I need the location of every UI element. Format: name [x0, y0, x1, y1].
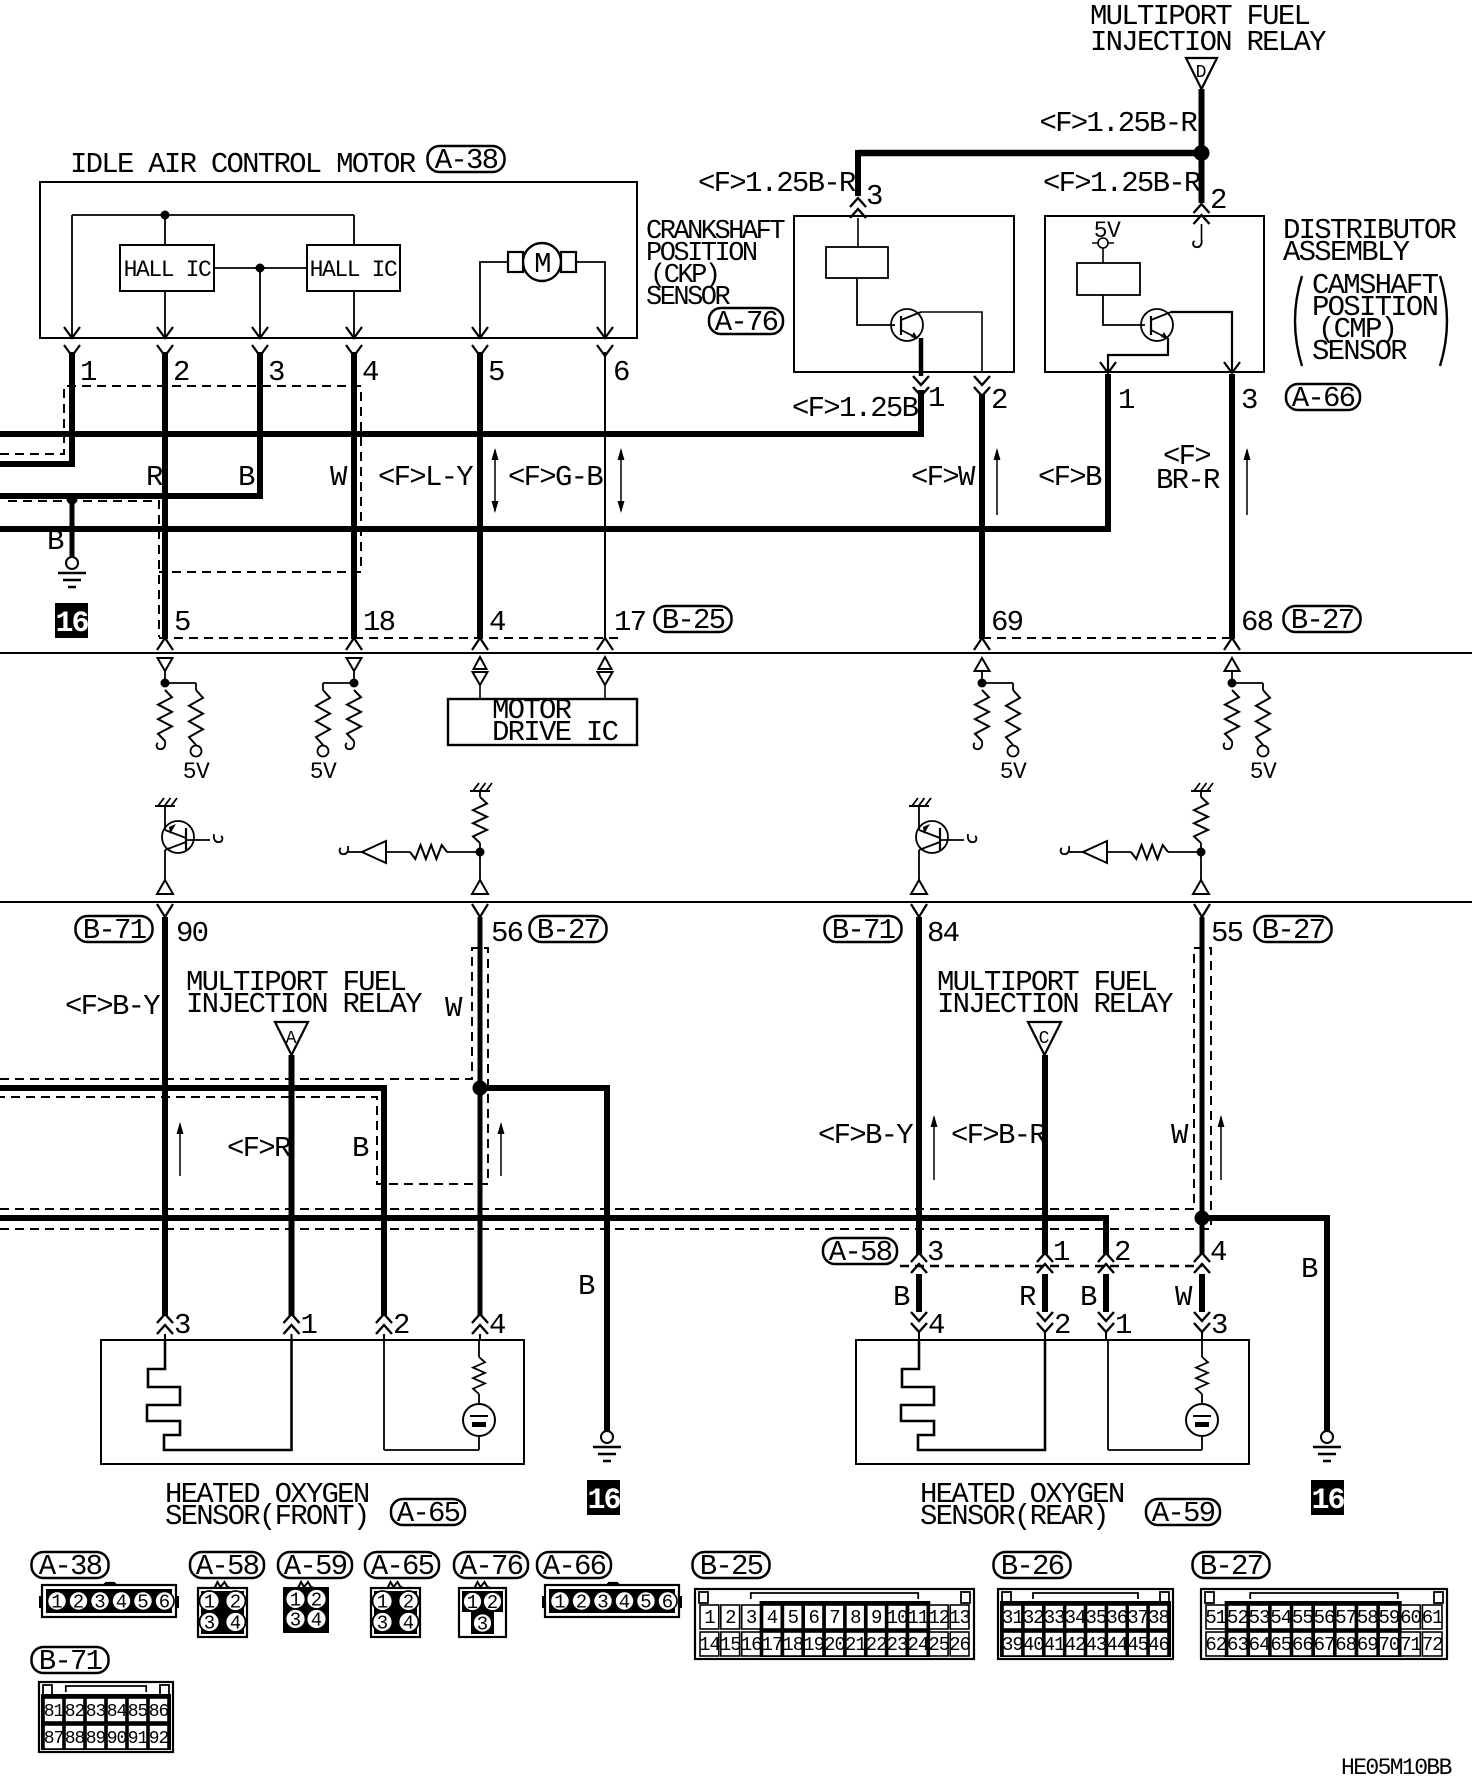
cell partition — [383, 1340, 385, 1450]
wire horizontal 1.25B-R — [858, 150, 1201, 157]
connector label B-27 — [530, 916, 607, 942]
svg-text:B-27: B-27 — [1200, 1550, 1263, 1583]
arrow up 68 — [1246, 450, 1248, 515]
svg-text:<F>B-Y: <F>B-Y — [818, 1119, 913, 1152]
svg-text:B-71: B-71 — [83, 914, 146, 947]
svg-text:3: 3 — [1211, 1309, 1227, 1342]
wire A-38 pin5 down to B-25 pin4 — [477, 352, 483, 639]
svg-text:22: 22 — [866, 1634, 887, 1656]
svg-text:53: 53 — [1249, 1607, 1270, 1629]
dashed harness outline lower — [8, 501, 159, 637]
svg-text:<F>B-Y: <F>B-Y — [65, 990, 160, 1023]
svg-text:B: B — [47, 525, 64, 558]
ecu output triangle — [1193, 880, 1209, 894]
svg-text:25: 25 — [928, 1634, 949, 1656]
relay terminal D triangle — [1186, 58, 1217, 89]
ecu terminal triangle — [158, 658, 173, 671]
svg-text:12: 12 — [928, 1607, 949, 1629]
svg-text:84: 84 — [107, 1702, 127, 1722]
svg-text:21: 21 — [845, 1634, 866, 1656]
resistor pull — [1225, 690, 1239, 741]
svg-text:55: 55 — [1292, 1607, 1313, 1629]
wire hall1-hall2 — [214, 267, 307, 269]
svg-text:26: 26 — [949, 1634, 970, 1656]
svg-text:BR-R: BR-R — [1156, 464, 1220, 497]
svg-text:B: B — [578, 1270, 595, 1303]
svg-text:6: 6 — [159, 1592, 170, 1614]
svg-text:DRIVE IC: DRIVE IC — [492, 716, 619, 749]
wire W to A-59 — [1199, 1274, 1205, 1312]
svg-text:SENSOR(REAR): SENSOR(REAR) — [920, 1500, 1108, 1533]
transistor Q cmp — [1141, 309, 1173, 341]
svg-text:<F>1.25B-R: <F>1.25B-R — [1039, 107, 1197, 140]
wire cmp collector to pin3 — [1171, 312, 1232, 372]
ckp pickup element — [826, 247, 888, 278]
connector label A-38 — [428, 146, 505, 172]
connector label A-59 gallery — [278, 1552, 352, 1578]
wire B to ground right-bottom — [1202, 1218, 1327, 1431]
wire CMP pin3 down to B-27 pin68 — [1229, 374, 1235, 639]
resistor pullup — [1194, 797, 1208, 843]
ecu motor drive terminal x480 — [474, 657, 487, 669]
svg-text:INJECTION RELAY: INJECTION RELAY — [186, 988, 422, 1021]
comparator buffer — [1083, 841, 1107, 863]
svg-text:5V: 5V — [1000, 759, 1027, 785]
svg-text:1: 1 — [1053, 1236, 1069, 1269]
wire CKP pin2 down to B-27 pin69 — [979, 394, 985, 639]
svg-text:1: 1 — [204, 1592, 215, 1614]
svg-text:B-27: B-27 — [1291, 604, 1354, 637]
svg-text:B: B — [1080, 1281, 1097, 1314]
ecu output triangle — [472, 880, 488, 894]
svg-text:18: 18 — [782, 1634, 803, 1656]
svg-text:39: 39 — [1002, 1634, 1023, 1656]
svg-text:A-76: A-76 — [460, 1550, 523, 1583]
resistor to 5V — [1256, 690, 1270, 745]
ground hatch — [470, 790, 490, 792]
svg-text:B: B — [1301, 1253, 1318, 1286]
svg-text:90: 90 — [107, 1729, 127, 1749]
svg-text:9: 9 — [871, 1607, 882, 1629]
svg-text:B-25: B-25 — [700, 1550, 763, 1583]
connector label B-25 gallery — [693, 1552, 770, 1578]
svg-text:6: 6 — [613, 356, 629, 389]
connector label B-27 right — [1255, 916, 1332, 942]
comparator buffer — [362, 841, 386, 863]
svg-text:<F>1.25B: <F>1.25B — [792, 392, 919, 425]
resistor to 5V — [316, 690, 330, 745]
svg-text:3: 3 — [268, 356, 284, 389]
connector label A-65 — [391, 1499, 465, 1525]
wire element to transistor — [1103, 295, 1145, 325]
pin 69 of B-27 — [974, 638, 990, 650]
wire motor right lead — [576, 262, 605, 338]
relay terminal A triangle — [275, 1022, 308, 1055]
svg-text:35: 35 — [1086, 1607, 1107, 1629]
svg-text:40: 40 — [1023, 1634, 1044, 1656]
svg-text:52: 52 — [1227, 1607, 1248, 1629]
svg-text:70: 70 — [1379, 1634, 1400, 1656]
svg-text:3: 3 — [94, 1592, 105, 1614]
ground code 16 bottom left — [587, 1480, 620, 1515]
svg-text:<F>B: <F>B — [1038, 461, 1102, 494]
wire hall1 down — [164, 291, 166, 338]
arrow up 90 — [179, 1124, 181, 1176]
wire A-38 pin6 down to B-25 pin17 — [604, 352, 606, 639]
svg-text:62: 62 — [1205, 1634, 1226, 1656]
svg-text:8: 8 — [850, 1607, 861, 1629]
svg-text:2: 2 — [1210, 184, 1226, 217]
pin 4 of A-38 — [346, 327, 362, 338]
wire B to A-59 — [916, 1274, 922, 1312]
svg-text:41: 41 — [1044, 1634, 1065, 1656]
svg-text:11: 11 — [907, 1607, 928, 1629]
svg-text:3: 3 — [377, 1613, 388, 1635]
svg-text:C: C — [1039, 1029, 1050, 1049]
svg-text:ASSEMBLY: ASSEMBLY — [1283, 236, 1410, 269]
svg-text:63: 63 — [1227, 1634, 1248, 1656]
svg-text:<F>1.25B-R: <F>1.25B-R — [698, 167, 856, 200]
ecu terminal triangle — [975, 658, 990, 671]
svg-text:M: M — [534, 248, 550, 281]
wire element to transistor — [857, 278, 895, 325]
svg-text:3: 3 — [477, 1614, 488, 1636]
pin 6 of A-38 — [597, 327, 613, 338]
svg-text:15: 15 — [720, 1634, 741, 1656]
ecu pin male x1202 — [1194, 904, 1210, 917]
wire internal top — [72, 214, 354, 216]
wire ckp emitter to pin1 — [919, 338, 924, 376]
svg-text:1: 1 — [1115, 1309, 1131, 1342]
arrow both ways 1 — [494, 450, 496, 511]
arrow up 55 — [1220, 1117, 1222, 1180]
motor drive ic box — [448, 699, 637, 745]
svg-text:3: 3 — [290, 1610, 301, 1632]
svg-text:2: 2 — [725, 1607, 736, 1629]
svg-text:5V: 5V — [1250, 759, 1277, 785]
resistor pull — [347, 690, 361, 741]
svg-text:59: 59 — [1379, 1607, 1400, 1629]
pin 1 of A-65 — [284, 1314, 300, 1334]
svg-text:58: 58 — [1357, 1607, 1378, 1629]
svg-text:16: 16 — [55, 607, 88, 641]
svg-text:<F>W: <F>W — [911, 461, 976, 494]
bus wire to A-58 pin2 — [0, 1218, 1106, 1254]
svg-text:2: 2 — [403, 1592, 414, 1614]
svg-text:87: 87 — [44, 1729, 64, 1749]
connector label B-26 gallery — [994, 1552, 1071, 1578]
connector label B-71 gallery — [32, 1647, 109, 1673]
svg-text:82: 82 — [65, 1702, 85, 1722]
ecu motor drive terminal x605 — [599, 657, 612, 669]
svg-text:B-71: B-71 — [39, 1645, 102, 1678]
ecu pin male x480 — [472, 904, 488, 917]
node junction — [978, 679, 987, 688]
svg-text:38: 38 — [1148, 1607, 1169, 1629]
svg-text:61: 61 — [1422, 1607, 1443, 1629]
connector label A-58 — [823, 1238, 897, 1264]
wire A-38 pin3 to left edge — [0, 352, 260, 496]
wire hall2 down — [353, 291, 355, 338]
svg-text:4: 4 — [767, 1607, 778, 1629]
svg-text:16: 16 — [587, 1484, 620, 1518]
node junction — [1197, 848, 1206, 857]
arrow both ways 2 — [620, 450, 622, 511]
svg-text:A-65: A-65 — [397, 1497, 460, 1530]
svg-text:23: 23 — [887, 1634, 908, 1656]
ground code 16 bottom right — [1311, 1480, 1344, 1515]
svg-text:56: 56 — [1314, 1607, 1335, 1629]
svg-text:4: 4 — [1210, 1236, 1226, 1269]
ecu pin male x919 — [911, 904, 927, 917]
svg-text:31: 31 — [1002, 1607, 1023, 1629]
svg-text:4: 4 — [928, 1309, 944, 1342]
pin 1 of A-38 — [64, 327, 80, 338]
connector drawing B-25 — [695, 1589, 974, 1659]
idle air control motor box A-38 — [40, 182, 637, 338]
svg-text:A-65: A-65 — [371, 1550, 434, 1583]
svg-text:W: W — [330, 461, 348, 494]
connector label A-58 gallery — [190, 1552, 264, 1578]
svg-text:4: 4 — [489, 606, 505, 639]
resistor pull — [975, 690, 989, 741]
wire relay A down to A-65 pin1 — [289, 1055, 295, 1316]
dashed harness outline A-38 — [0, 386, 361, 572]
resistor pull — [158, 690, 172, 741]
svg-text:71: 71 — [1400, 1634, 1421, 1656]
pin 3 of A-59 — [1194, 1312, 1210, 1332]
svg-text:46: 46 — [1148, 1634, 1169, 1656]
ground hatch — [155, 805, 175, 807]
heater element — [901, 1340, 1045, 1450]
wire A-38 pin1 to left edge — [0, 352, 72, 464]
svg-text:IDLE AIR CONTROL MOTOR: IDLE AIR CONTROL MOTOR — [70, 148, 416, 181]
svg-text:72: 72 — [1422, 1634, 1443, 1656]
ground code 16 — [55, 603, 88, 638]
svg-text:A-66: A-66 — [1292, 382, 1355, 415]
pin 3 of A-76 — [850, 198, 866, 218]
svg-text:69: 69 — [991, 606, 1023, 639]
svg-text:<F>R: <F>R — [227, 1132, 291, 1165]
svg-text:92: 92 — [149, 1729, 169, 1749]
node junction 55/B — [1195, 1211, 1210, 1226]
wire B to ground — [70, 499, 75, 557]
node junction ground B — [67, 494, 78, 505]
svg-text:66: 66 — [1292, 1634, 1313, 1656]
cell partition — [1107, 1340, 1109, 1450]
wire relay C down to A-58 pin1 — [1042, 1055, 1048, 1254]
connector label A-76 gallery — [454, 1552, 528, 1578]
svg-text:A-38: A-38 — [39, 1550, 102, 1583]
connector label A-65 gallery — [365, 1552, 439, 1578]
wire B to A-59 — [1103, 1274, 1109, 1312]
svg-text:HE05M10BB: HE05M10BB — [1341, 1755, 1452, 1780]
camshaft position label with parens — [1295, 276, 1302, 366]
svg-text:1: 1 — [1118, 384, 1134, 417]
svg-text:1: 1 — [377, 1592, 388, 1614]
svg-text:B-27: B-27 — [537, 914, 600, 947]
svg-text:1: 1 — [554, 1592, 565, 1614]
wire ckp collector to pin2 — [921, 312, 982, 372]
pin 18 of B-25 — [346, 638, 362, 650]
svg-text:2: 2 — [576, 1592, 587, 1614]
connector drawing A-38 — [42, 1585, 176, 1617]
wire cmp emitter to pin1 — [1108, 338, 1168, 372]
ground hatch — [1191, 790, 1211, 792]
connector label A-59 — [1146, 1499, 1220, 1525]
node junction — [350, 679, 359, 688]
svg-text:6: 6 — [808, 1607, 819, 1629]
arrow up 69 — [996, 450, 998, 515]
svg-text:A-58: A-58 — [829, 1236, 892, 1269]
node junction — [476, 848, 485, 857]
ecu terminal triangle — [1225, 658, 1240, 671]
pin 1 of A-59 — [1098, 1312, 1114, 1332]
svg-text:83: 83 — [86, 1702, 106, 1722]
svg-text:1: 1 — [51, 1592, 62, 1614]
wire motor left lead — [480, 262, 508, 338]
connector row A-58 dashed — [900, 1265, 1202, 1267]
pin 5 of B-25 — [157, 638, 173, 650]
resistor series — [410, 845, 447, 859]
svg-text:67: 67 — [1314, 1634, 1335, 1656]
svg-text:24: 24 — [907, 1634, 928, 1656]
svg-text:A-66: A-66 — [543, 1550, 606, 1583]
svg-text:B: B — [893, 1281, 910, 1314]
svg-text:R: R — [1019, 1281, 1036, 1314]
svg-text:4: 4 — [116, 1592, 127, 1614]
svg-text:69: 69 — [1357, 1634, 1378, 1656]
connector label A-76 — [709, 308, 783, 334]
connector drawing A-58 — [198, 1588, 247, 1637]
svg-text:5: 5 — [488, 356, 504, 389]
dashed channel around 55 — [0, 948, 1211, 1229]
pin 3 of A-65 — [157, 1314, 173, 1334]
svg-text:SENSOR(FRONT): SENSOR(FRONT) — [165, 1500, 369, 1533]
cmp pickup element — [1077, 263, 1140, 295]
svg-text:B-25: B-25 — [662, 604, 725, 637]
svg-text:4: 4 — [230, 1613, 241, 1635]
svg-text:3: 3 — [866, 180, 882, 213]
svg-text:B-71: B-71 — [832, 914, 895, 947]
svg-text:B-26: B-26 — [1001, 1550, 1064, 1583]
crankshaft position sensor box A-76 — [794, 216, 1014, 372]
svg-text:A-58: A-58 — [196, 1550, 259, 1583]
ecu output triangle — [157, 880, 173, 894]
arrow up 84 — [933, 1117, 935, 1180]
pin 4 of B-25 — [472, 638, 488, 650]
svg-text:57: 57 — [1335, 1607, 1356, 1629]
wire pin2 internal curl — [1193, 239, 1202, 247]
svg-text:A-59: A-59 — [284, 1550, 347, 1583]
svg-text:16: 16 — [1311, 1484, 1344, 1518]
svg-text:4: 4 — [403, 1613, 414, 1635]
svg-text:HALL IC: HALL IC — [310, 257, 397, 283]
pin 4 of A-59 — [911, 1312, 927, 1332]
svg-text:<F>L-Y: <F>L-Y — [378, 461, 473, 494]
bus wire B to A-65 pin2 — [0, 1088, 384, 1316]
svg-text:R: R — [146, 461, 163, 494]
connector label B-71 — [76, 916, 153, 942]
motor M — [523, 243, 561, 281]
pin 1 of A-76 — [913, 376, 929, 396]
svg-text:4: 4 — [619, 1592, 630, 1614]
hall ic 1 — [120, 245, 214, 291]
wire bus3 to CMP pin1 — [0, 374, 1108, 529]
wire A-38 pin2 down to B-25 pin5 — [162, 352, 168, 639]
svg-text:1: 1 — [704, 1607, 715, 1629]
pin 4 of A-58 — [1194, 1253, 1210, 1273]
svg-text:3: 3 — [1241, 384, 1257, 417]
svg-text:13: 13 — [949, 1607, 970, 1629]
svg-text:W: W — [1171, 1119, 1189, 1152]
svg-text:3: 3 — [927, 1236, 943, 1269]
svg-text:SENSOR: SENSOR — [1312, 335, 1407, 368]
sensing cell — [1201, 1340, 1203, 1357]
svg-text:64: 64 — [1249, 1634, 1270, 1656]
svg-text:20: 20 — [824, 1634, 845, 1656]
pin 2 of A-76 — [974, 376, 990, 396]
camshaft position sensor box A-66 — [1045, 216, 1264, 372]
svg-text:68: 68 — [1335, 1634, 1356, 1656]
ground (earth) bottom right — [1321, 1431, 1333, 1443]
svg-text:85: 85 — [128, 1702, 148, 1722]
ecu terminal triangle — [347, 658, 362, 671]
node junction — [161, 679, 170, 688]
svg-text:INJECTION RELAY: INJECTION RELAY — [1090, 26, 1326, 59]
svg-text:10: 10 — [887, 1607, 908, 1629]
wire B-27 56 down to junction and A-65 pin4 — [478, 917, 483, 1316]
svg-text:2: 2 — [487, 1592, 498, 1614]
heated oxygen sensor box — [101, 1340, 524, 1464]
svg-text:5V: 5V — [183, 759, 210, 785]
svg-text:2: 2 — [1054, 1309, 1070, 1342]
resistor series — [1131, 845, 1168, 859]
wire bus1 (F)1.25B to CKP pin1 — [0, 390, 921, 434]
svg-text:W: W — [445, 992, 463, 1025]
svg-text:34: 34 — [1065, 1607, 1086, 1629]
svg-text:43: 43 — [1086, 1634, 1107, 1656]
svg-text:17: 17 — [614, 606, 646, 639]
svg-text:B: B — [352, 1132, 369, 1165]
svg-text:2: 2 — [991, 384, 1007, 417]
svg-text:88: 88 — [65, 1729, 85, 1749]
svg-text:<F>B-R: <F>B-R — [951, 1119, 1046, 1152]
svg-text:56: 56 — [491, 917, 523, 950]
svg-text:33: 33 — [1044, 1607, 1065, 1629]
wire relay to CMP pin2 — [1199, 153, 1205, 203]
pin 1 of A-58 — [1037, 1253, 1053, 1273]
ECU boundary upper — [0, 652, 1472, 654]
svg-text:4: 4 — [362, 356, 378, 389]
pin 68 of B-27 — [1224, 638, 1240, 650]
svg-text:14: 14 — [699, 1634, 720, 1656]
pin 5 of A-38 — [472, 327, 488, 338]
resistor to 5V — [1006, 690, 1020, 745]
svg-text:2: 2 — [1114, 1236, 1130, 1269]
node junction 56/B — [473, 1081, 488, 1096]
connector drawing A-76 — [459, 1588, 506, 1637]
svg-text:2: 2 — [73, 1592, 84, 1614]
pin 17 of B-25 — [597, 638, 613, 650]
relay terminal C triangle — [1028, 1022, 1061, 1055]
svg-text:54: 54 — [1270, 1607, 1291, 1629]
connector drawing A-65 — [371, 1588, 420, 1637]
svg-text:W: W — [1175, 1281, 1193, 1314]
connector row B-27 dashed — [982, 637, 1232, 639]
svg-text:86: 86 — [149, 1702, 169, 1722]
ground (earth) bottom left — [601, 1431, 613, 1443]
